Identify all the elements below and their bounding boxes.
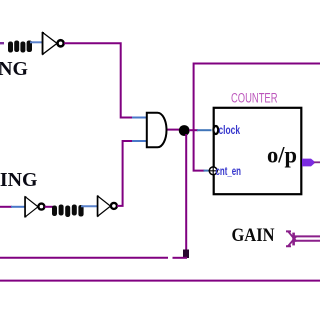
svg-text:clock: clock [219,123,241,137]
svg-text:RING: RING [0,58,28,80]
inverter U2 output bubble [38,204,44,210]
wire from junction down to bottom feedback rail [185,134,187,257]
o/p output bus arrow [302,159,316,167]
ellipsis dots (continuation of top ring oscillator chain) [8,41,32,53]
counter block U5 body [214,108,302,194]
wire from o/p arrow to right edge [314,161,320,163]
feedback wire from right edge down to cnt_en [194,64,320,171]
svg-text:o/p: o/p [267,143,297,169]
AND gate U4 [147,113,167,148]
wire from AND output to junction [168,129,181,131]
inverter U1 (top ring oscillator stage) [42,32,44,55]
inverter U3 (lower ring stage) [97,196,99,217]
wire from U1 output right and down to AND gate upper input [64,43,134,117]
wire (blue) into inverter U2 input [11,206,25,208]
wire from junction to counter clock pin [189,129,198,131]
svg-text:GAIN: GAIN [232,226,276,246]
cnt_en pin (circle with cross) [209,167,217,175]
wire (blue) from dots to top inverter input [30,41,42,43]
inverter U1 output bubble [58,40,64,46]
ellipsis dots (continuation of lower ring chain) [52,205,84,218]
svg-text:COUNTER: COUNTER [231,91,278,106]
svg-text:RING: RING [0,169,38,191]
svg-text:cnt_en: cnt_en [216,166,242,178]
inverter U3 output bubble [111,203,117,209]
GAIN input port symbol (double line with terminal X) [286,231,320,246]
inverter U2 (lower ring stage) [24,196,26,217]
corner blob at rail junction [183,250,189,259]
wire from U3 output up to AND gate lower input [117,141,134,206]
bottom horizontal wire across full width [0,280,320,282]
wire (blue pin stub) into AND upper input [132,117,147,119]
bottom feedback rail (corner segment with gap) [173,257,188,259]
wire from U2 bubble to ellipsis dots [45,206,53,208]
bottom feedback rail (left segment) [0,257,168,259]
wire (blue pin stub) into AND lower input [132,140,147,142]
wire (blue pin stub) into cnt_en pin [204,170,209,172]
wire stub entering top ring from left edge [0,42,4,44]
junction node (solder dot) [179,125,190,136]
wire entering lower ring from left edge [0,206,12,208]
wire (blue) from dots to inverter U3 input [81,205,98,207]
clock pin bubble [213,126,218,134]
